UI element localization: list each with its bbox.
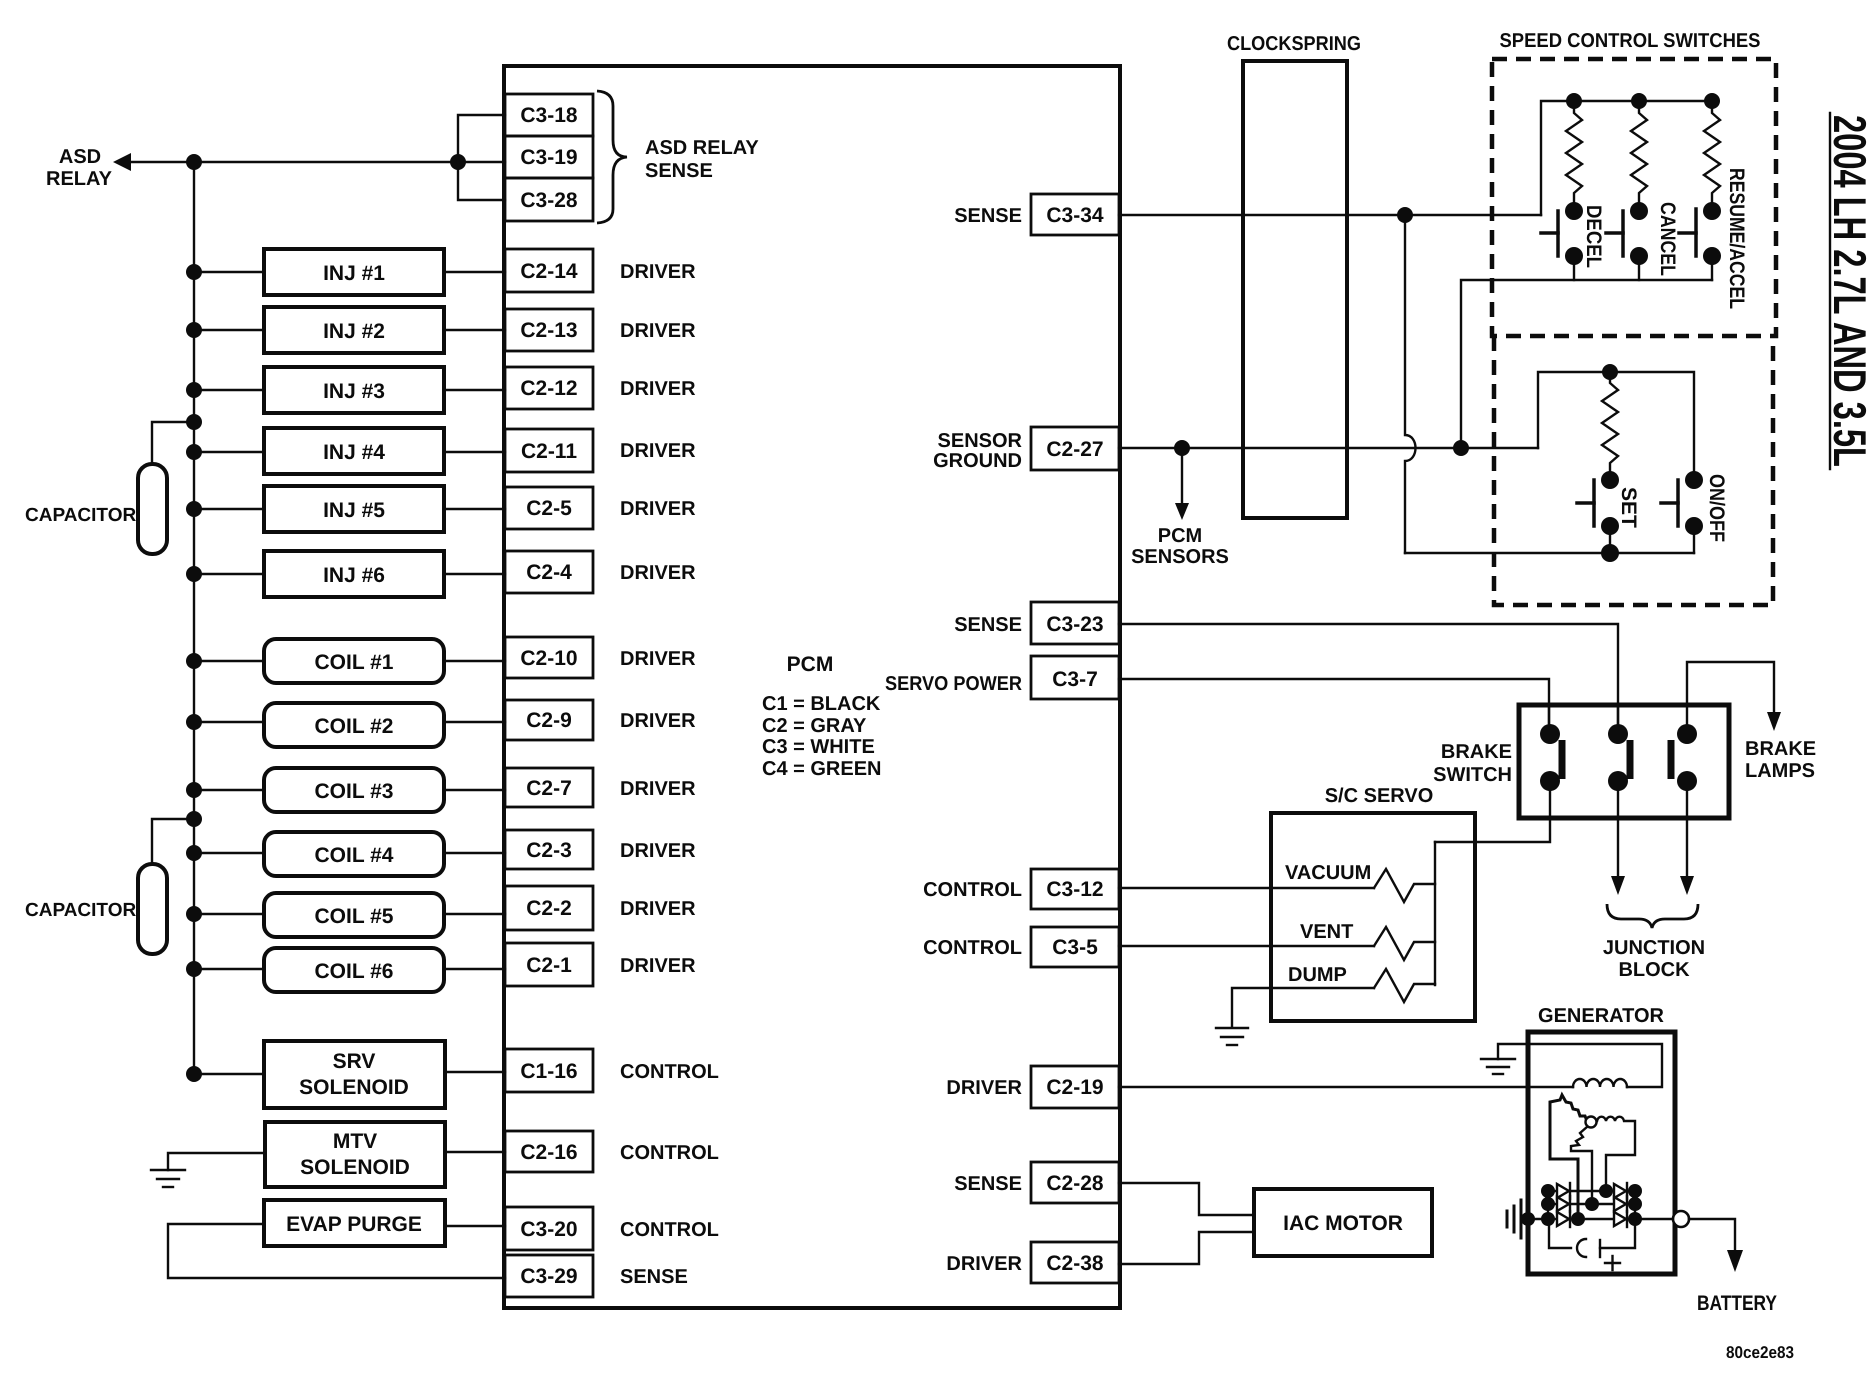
arrow to ASD relay [113,153,131,171]
wire COIL2 to C2-9 [444,721,505,723]
svg-text:GROUND: GROUND [933,450,1022,472]
pin C2-27 [1031,427,1119,470]
injector INJ #3 [264,367,444,413]
wire C2-28 sense to IAC motor [1119,1183,1254,1215]
svg-text:C1-16: C1-16 [520,1060,577,1083]
pin C2-2 [505,886,593,930]
wire CANCEL lower stem [1638,256,1640,280]
switch RESUME/ACCEL contacts [1703,202,1721,220]
wire C2-19 driver to field coil [1119,1086,1573,1088]
svg-text:DRIVER: DRIVER [620,261,696,283]
wire C3-23 sense to brake switch [1119,624,1618,734]
junction capacitor 1 branch [186,414,202,430]
svg-text:GENERATOR: GENERATOR [1538,1005,1664,1027]
coil VACUUM valve [1374,869,1435,902]
pin C2-19 [1031,1066,1119,1108]
svg-text:SET: SET [1617,487,1640,528]
svg-text:SRV: SRV [333,1050,376,1073]
svg-text:DRIVER: DRIVER [620,378,696,400]
svg-text:MTV: MTV [333,1130,377,1153]
pin C2-12 [505,367,593,409]
regulator rotor loop [1549,1219,1635,1257]
PCM module box [504,66,1120,1308]
svg-text:DRIVER: DRIVER [620,778,696,800]
junction INJ4 [186,444,202,460]
pin C2-28 [1031,1162,1119,1203]
svg-text:C3-34: C3-34 [1046,204,1104,227]
ignition coil COIL #5 [264,893,444,937]
svg-text:COIL #5: COIL #5 [315,905,394,928]
wire B+ vertical bus [193,162,195,1074]
pin C3-18 [505,94,593,136]
wire bus to INJ1 [194,271,264,273]
svg-text:INJ #6: INJ #6 [323,564,385,587]
svg-text:INJ #2: INJ #2 [323,320,385,343]
pin C3-12 [1031,869,1119,909]
wire bus to COIL6 [194,968,264,970]
rectifier right bus [1634,1191,1636,1219]
switch DECEL contacts [1565,202,1583,220]
wire generator output to battery [1689,1219,1735,1250]
svg-text:DRIVER: DRIVER [620,648,696,670]
svg-text:C2 = GRAY: C2 = GRAY [762,715,867,737]
capacitor 2 body [138,864,167,954]
stator three-phase winding [1550,1095,1635,1219]
svg-text:C4 = GREEN: C4 = GREEN [762,758,881,780]
ground MTV solenoid [151,1170,185,1187]
wire branch to C3-18 [458,115,505,162]
rectifier diode row 2 [1548,1196,1635,1212]
svg-text:C3-12: C3-12 [1046,878,1103,901]
svg-text:C3-7: C3-7 [1052,668,1098,691]
pin C3-28 [505,178,593,221]
ignition coil COIL #6 [264,948,444,992]
junction resistor R1 top [1566,93,1582,109]
svg-text:C2-5: C2-5 [526,497,572,520]
wire MTV solenoid to ground [168,1153,265,1170]
coil DUMP valve [1374,969,1435,1002]
wire INJ2 to C2-13 [444,329,505,331]
junction COIL1 [186,653,202,669]
wire INJ6 to C2-4 [444,573,505,575]
wire bus to INJ5 [194,508,264,510]
junction B+ bus top [186,154,202,170]
speed control switches upper dashed box [1492,59,1776,336]
pin C2-38 [1031,1242,1119,1283]
svg-text:RELAY: RELAY [46,168,113,190]
wire COIL5 to C2-2 [444,913,505,915]
pin C2-11 [505,429,593,472]
svg-text:DRIVER: DRIVER [620,440,696,462]
junction COIL2 [186,714,202,730]
svg-text:C2-1: C2-1 [526,954,572,977]
svg-text:PCM: PCM [787,653,834,676]
pin C3-20 [505,1207,593,1250]
injector INJ #6 [264,551,444,597]
switch ON/OFF actuator [1661,480,1678,526]
svg-text:C2-14: C2-14 [520,260,578,283]
svg-text:SENSE: SENSE [645,160,713,182]
svg-text:C2-19: C2-19 [1046,1076,1103,1099]
wire sense to SET/ONOFF lower bus [1405,552,1694,554]
wire COIL4 to C2-3 [444,852,505,854]
svg-text:SOLENOID: SOLENOID [299,1076,409,1099]
wire branch to C3-28 [458,162,505,200]
wire MTV to C2-16 [445,1151,505,1153]
wire INJ4 to C2-11 [444,451,505,453]
solenoid SRV SOLENOID [264,1041,445,1108]
junction resistor R2 top [1631,93,1647,109]
svg-text:BRAKE: BRAKE [1745,738,1816,760]
plus terminal label [1605,1256,1620,1270]
injector INJ #2 [264,307,444,353]
wire bus to COIL2 [194,721,264,723]
junction resistor R3 top [1704,93,1720,109]
wire bus to INJ6 [194,573,264,575]
resistor R3 (RESUME/ACCEL) [1704,101,1720,211]
svg-text:BLOCK: BLOCK [1618,959,1690,981]
junction SET on sense bus [1601,544,1619,562]
svg-text:DRIVER: DRIVER [620,898,696,920]
pin C2-1 [505,943,593,986]
ignition coil COIL #4 [264,832,444,876]
svg-text:C3-5: C3-5 [1052,936,1098,959]
ground DUMP [1216,1028,1248,1045]
pin C2-14 [505,249,593,292]
injector INJ #1 [264,249,444,295]
junction INJ5 [186,501,202,517]
label SET [1617,487,1640,528]
wire SET lower stem [1609,526,1611,553]
svg-text:CAPACITOR: CAPACITOR [25,505,136,526]
switch DECEL actuator [1541,211,1558,256]
svg-text:COIL #4: COIL #4 [315,844,394,867]
svg-text:C2-7: C2-7 [526,777,572,800]
svg-text:C2-2: C2-2 [526,897,572,920]
wire to capacitor 1 [152,422,194,464]
svg-text:DRIVER: DRIVER [620,955,696,977]
wire ON/OFF lower stem [1693,526,1695,553]
svg-text:ASD: ASD [59,146,101,168]
pin C3-5 [1031,927,1119,967]
coil VENT valve [1374,927,1435,960]
wire bus to INJ2 [194,329,264,331]
wire C2-27 sensor ground [1119,447,1538,449]
svg-text:DRIVER: DRIVER [620,320,696,342]
svg-text:C2-3: C2-3 [526,839,572,862]
svg-text:DUMP: DUMP [1288,964,1347,986]
svg-text:COIL #6: COIL #6 [315,960,394,983]
svg-text:SENSE: SENSE [954,205,1022,227]
wire ASD relay feed horizontal [128,161,505,163]
svg-text:SENSE: SENSE [954,614,1022,636]
wire INJ5 to C2-5 [444,508,505,510]
switch CANCEL actuator [1606,211,1623,256]
brace junction block [1607,904,1698,928]
svg-text:SPEED CONTROL SWITCHES: SPEED CONTROL SWITCHES [1500,30,1761,52]
junction SET resistor top [1602,364,1618,380]
ground generator field [1481,1059,1515,1074]
brake switch contact set 2 [1608,724,1628,744]
junction ASD sense branch [450,154,466,170]
svg-text:C1 = BLACK: C1 = BLACK [762,693,881,715]
pin C2-9 [505,700,593,740]
wire INJ1 to C2-14 [444,271,505,273]
svg-text:LAMPS: LAMPS [1745,760,1815,782]
svg-text:IAC MOTOR: IAC MOTOR [1283,1212,1403,1235]
rectifier left bus [1547,1191,1549,1219]
svg-text:C3-18: C3-18 [520,104,578,127]
ignition coil COIL #2 [264,703,444,747]
svg-text:DRIVER: DRIVER [946,1077,1022,1099]
junction SRV solenoid [186,1066,202,1082]
resistor R4 (SET) [1602,372,1618,480]
brake switch contact set 3 [1677,724,1697,744]
rectifier diode row 1 [1548,1183,1635,1199]
svg-text:EVAP PURGE: EVAP PURGE [286,1213,422,1236]
wire servo internal bus [1434,842,1436,985]
junction INJ1 [186,264,202,280]
motor IAC MOTOR [1254,1189,1432,1256]
pin C1-16 [505,1049,593,1092]
switch SET actuator [1577,480,1594,526]
capacitor 1 body [138,464,167,554]
svg-text:C2-27: C2-27 [1046,438,1103,461]
ignition coil COIL #1 [264,639,444,683]
injector INJ #5 [264,486,444,532]
svg-text:CONTROL: CONTROL [620,1061,719,1083]
wire field winding return loop [1498,1044,1662,1087]
junction INJ6 [186,566,202,582]
svg-text:SENSE: SENSE [954,1173,1022,1195]
wire contact 3 to junction block arrow [1686,781,1688,878]
wire sense into contact 2 [1617,705,1619,734]
wire bus to INJ3 [194,389,264,391]
wire EVAP purge to C3-29 sense loop [168,1224,505,1278]
svg-text:CANCEL: CANCEL [1656,202,1679,276]
generator box [1528,1032,1675,1274]
wire switch lower bus [1461,280,1712,448]
injector INJ #4 [264,428,444,474]
wire EVAP to C3-20 [445,1225,505,1227]
svg-text:INJ #4: INJ #4 [323,441,385,464]
svg-text:DRIVER: DRIVER [946,1253,1022,1275]
svg-text:C2-38: C2-38 [1046,1252,1104,1275]
wire servo power into contact 1 [1548,705,1550,733]
wire sense branch vertical with hop over sensor ground [1405,215,1416,553]
wire INJ3 to C2-12 [444,389,505,391]
resistor R1 (DECEL) [1566,101,1582,211]
wire bus to INJ4 [194,451,264,453]
wire C3-5 control (VENT) [1119,945,1374,947]
junction COIL3 [186,782,202,798]
wire COIL6 to C2-1 [444,968,505,970]
title underline [1829,113,1831,469]
brake switch contact set 1 [1540,724,1560,744]
svg-text:DRIVER: DRIVER [620,840,696,862]
rectifier diode row 3 output bus [1528,1211,1674,1227]
pin C3-23 [1031,602,1119,644]
svg-text:C2-10: C2-10 [520,647,577,670]
pin C2-13 [505,309,593,351]
wire bus to COIL3 [194,789,264,791]
wire contact 2 to junction block arrow [1617,781,1619,878]
svg-text:CAPACITOR: CAPACITOR [25,900,136,921]
junction COIL4 [186,845,202,861]
wire COIL3 to C2-7 [444,789,505,791]
pin C2-3 [505,830,593,869]
svg-text:COIL #2: COIL #2 [315,715,394,738]
junction capacitor 2 branch [186,811,202,827]
wire C3-7 servo power to brake switch [1119,679,1549,733]
svg-text:C3-19: C3-19 [520,146,577,169]
wire contact 3 to brake lamps arrow [1687,662,1774,734]
wire C2-38 driver to IAC motor [1119,1232,1254,1264]
pin C3-7 [1031,656,1119,699]
svg-text:PCM: PCM [1158,525,1202,547]
junction sensor ground to switches [1453,440,1469,456]
svg-text:C2-9: C2-9 [526,709,572,732]
svg-text:BATTERY: BATTERY [1697,1292,1777,1315]
svg-text:C3-20: C3-20 [520,1218,577,1241]
svg-text:SWITCH: SWITCH [1433,764,1512,786]
svg-text:CONTROL: CONTROL [620,1219,719,1241]
svg-text:CONTROL: CONTROL [923,937,1022,959]
arrow to PCM sensors [1181,448,1183,503]
svg-text:C3-23: C3-23 [1046,613,1103,636]
chassis ground generator case [1507,1200,1521,1238]
svg-text:C2-28: C2-28 [1046,1172,1104,1195]
inductor field winding [1573,1079,1627,1087]
wire contact 1 to S/C servo [1435,781,1550,842]
title 2004 LH 2.7L AND 3.5L [1824,115,1872,467]
wire RESUME lower stem [1711,256,1713,280]
svg-text:JUNCTION: JUNCTION [1603,937,1705,959]
svg-text:80ce2e83: 80ce2e83 [1726,1343,1794,1362]
svg-text:SENSOR: SENSOR [938,430,1023,452]
label DECEL [1582,205,1605,268]
svg-text:COIL #3: COIL #3 [315,780,394,803]
svg-text:C3 = WHITE: C3 = WHITE [762,736,875,758]
wire SRV to C1-16 [445,1071,505,1073]
svg-text:C2-12: C2-12 [520,377,577,400]
solenoid EVAP PURGE [264,1200,445,1246]
wire bus to COIL5 [194,913,264,915]
svg-text:VENT: VENT [1300,921,1353,943]
svg-text:S/C SERVO: S/C SERVO [1325,785,1434,807]
junction COIL5 [186,906,202,922]
wire sensor ground to SET resistor [1538,372,1694,480]
svg-text:BRAKE: BRAKE [1441,741,1512,763]
svg-text:C2-16: C2-16 [520,1141,577,1164]
svg-text:DRIVER: DRIVER [620,710,696,732]
svg-text:RESUME/ACCEL: RESUME/ACCEL [1725,168,1748,309]
svg-text:SERVO POWER: SERVO POWER [885,673,1022,695]
wire bus to COIL1 [194,660,264,662]
switch SET contacts [1601,471,1619,489]
pin C2-10 [505,637,593,678]
svg-text:C2-11: C2-11 [521,440,577,463]
wire bus to COIL4 [194,852,264,854]
svg-text:ON/OFF: ON/OFF [1705,474,1728,542]
svg-text:INJ #5: INJ #5 [323,499,385,522]
pin C3-19 [505,136,593,178]
wire resistor top bus [1574,100,1712,102]
svg-text:CLOCKSPRING: CLOCKSPRING [1227,33,1361,55]
junction COIL6 [186,961,202,977]
clockspring box [1243,61,1347,518]
switch ON/OFF contacts [1685,471,1703,489]
terminal output circle [1673,1211,1689,1227]
wire COIL1 to C2-10 [444,660,505,662]
solenoid MTV SOLENOID [265,1122,445,1187]
wire DUMP to ground [1232,988,1374,1027]
wire riser to resistor top bus [1541,101,1574,215]
switch CANCEL contacts [1630,202,1648,220]
svg-text:DECEL: DECEL [1582,205,1605,268]
svg-text:C3-28: C3-28 [520,189,578,212]
label CANCEL [1656,202,1679,276]
svg-text:VACUUM: VACUUM [1285,862,1371,884]
label RESUME/ACCEL [1725,168,1748,309]
resistor R2 (CANCEL) [1631,101,1647,211]
junction INJ2 [186,322,202,338]
svg-text:INJ #3: INJ #3 [323,380,385,403]
svg-text:ASD RELAY: ASD RELAY [645,137,759,159]
svg-text:DRIVER: DRIVER [620,562,696,584]
switch RESUME/ACCEL actuator [1679,209,1696,256]
junction C3-34 branch [1397,207,1413,223]
svg-text:C2-13: C2-13 [520,319,577,342]
svg-text:CONTROL: CONTROL [923,879,1022,901]
wire DECEL lower stem [1573,256,1575,280]
svg-text:C2-4: C2-4 [526,561,572,584]
S/C servo box [1271,813,1475,1021]
pin C2-7 [505,768,593,807]
wire to capacitor 2 [152,819,194,864]
svg-text:SENSE: SENSE [620,1266,688,1288]
junction INJ3 [186,382,202,398]
pin C3-34 [1031,194,1119,235]
speed control switches lower dashed box [1494,336,1773,605]
svg-text:COIL #1: COIL #1 [315,651,394,674]
wire bus to SRV solenoid [194,1073,264,1075]
svg-text:DRIVER: DRIVER [620,498,696,520]
ignition coil COIL #3 [264,768,444,812]
pin C2-4 [505,551,593,593]
brace ASD RELAY SENSE pins group [597,91,627,223]
svg-text:SOLENOID: SOLENOID [300,1156,410,1179]
pin C3-29 [505,1255,593,1297]
junction PCM sensors branch [1174,440,1190,456]
svg-text:SENSORS: SENSORS [1131,546,1229,568]
svg-text:INJ #1: INJ #1 [323,262,385,285]
pin C2-16 [505,1131,593,1172]
label ON/OFF [1705,474,1728,542]
brake switch box [1519,705,1729,818]
svg-text:CONTROL: CONTROL [620,1142,719,1164]
wire C3-34 sense to speed control switches [1119,214,1541,216]
wire C3-12 control (VACUUM) [1119,887,1374,889]
pin C2-5 [505,487,593,529]
svg-text:C3-29: C3-29 [520,1265,577,1288]
